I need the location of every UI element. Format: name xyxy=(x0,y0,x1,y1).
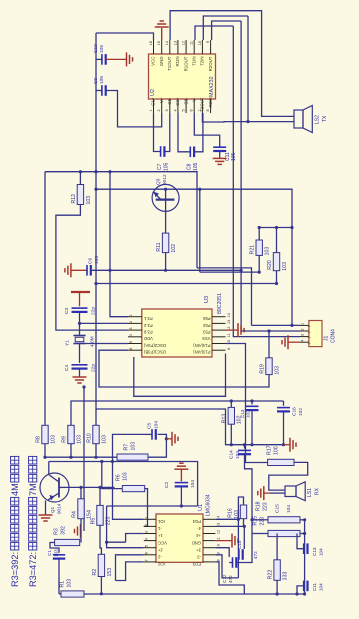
wire R3 left to C1 xyxy=(50,543,59,553)
capacitor C11 on V- to ground xyxy=(194,113,219,147)
svg-text:C6: C6 xyxy=(87,258,93,264)
svg-text:U2: U2 xyxy=(150,89,156,96)
U3 pin 3 xyxy=(128,329,142,331)
capacitor C9 to V+ xyxy=(96,90,102,92)
U1 pin 5 xyxy=(144,547,156,549)
U3 pin 11 xyxy=(212,336,226,338)
ground xyxy=(155,26,169,28)
wire bus x233 down to J1 pin3 xyxy=(233,26,300,337)
U3 pin 8 xyxy=(212,349,226,351)
wire R6 right to U1 pin2 xyxy=(144,489,148,527)
svg-text:472: 472 xyxy=(228,575,233,583)
wire bus x241 down to J1 pin2 region xyxy=(240,21,242,331)
svg-text:2: 2 xyxy=(129,321,133,323)
svg-text:104: 104 xyxy=(286,505,292,513)
svg-text:3: 3 xyxy=(165,109,169,111)
ground xyxy=(73,376,87,378)
svg-text:4.0M: 4.0M xyxy=(89,336,95,347)
svg-text:J1: J1 xyxy=(323,336,329,342)
svg-text:8: 8 xyxy=(206,109,210,111)
resistor R9 xyxy=(68,425,74,443)
op-amp U2 MAX232 IC body xyxy=(149,54,216,99)
svg-text:V+: V+ xyxy=(159,97,164,103)
svg-text:10: 10 xyxy=(227,340,231,344)
capacitor C12 xyxy=(232,557,234,568)
wire cross rail y272.1 xyxy=(200,271,259,273)
capacitor C13 bottom-right xyxy=(303,543,305,554)
svg-text:P13(AIN): P13(AIN) xyxy=(193,350,211,355)
svg-text:472: 472 xyxy=(253,551,258,559)
svg-text:+4: +4 xyxy=(196,533,201,538)
wire R2OUT pin9 riser xyxy=(212,21,242,40)
svg-text:5: 5 xyxy=(182,109,186,111)
wire C5 left xyxy=(113,434,145,461)
svg-text:C7: C7 xyxy=(157,163,163,170)
svg-text:13: 13 xyxy=(173,41,177,45)
wire C3 to Y1 xyxy=(79,312,81,336)
svg-text:P3.2: P3.2 xyxy=(143,323,152,328)
U2 pin 1 xyxy=(153,99,155,113)
svg-text:22p: 22p xyxy=(90,307,96,315)
wire U1 pin5 left loop xyxy=(107,506,144,548)
capacitor C14 xyxy=(244,445,246,449)
svg-text:R2: R2 xyxy=(92,569,98,576)
U1 pin 3 xyxy=(144,533,156,535)
svg-text:C13: C13 xyxy=(312,547,317,556)
wire R4 bottom to R3 xyxy=(80,519,82,543)
svg-text:11: 11 xyxy=(227,333,231,337)
svg-text:R3=472:: R3=472: xyxy=(28,552,38,587)
svg-text:333: 333 xyxy=(282,572,288,581)
svg-text:-2: -2 xyxy=(157,554,161,559)
svg-text:R3=392:: R3=392: xyxy=(10,552,20,587)
svg-text:9: 9 xyxy=(217,552,221,554)
ground xyxy=(174,468,188,470)
svg-text:4M: 4M xyxy=(10,483,20,496)
U2 pin 3 xyxy=(169,99,171,113)
J1 pin 4 xyxy=(300,341,309,343)
resistor R4 xyxy=(78,499,84,519)
svg-text:103: 103 xyxy=(235,451,241,459)
resistor R3 xyxy=(55,539,80,545)
capacitor C3 22p xyxy=(72,307,88,309)
svg-text:R17: R17 xyxy=(266,445,272,455)
wire T2IN pin10 riser to bus xyxy=(203,16,248,40)
wire Y1 to C4 xyxy=(79,344,81,364)
wire VCC pin16 to left rail xyxy=(96,33,154,40)
svg-text:T1IN: T1IN xyxy=(191,57,196,67)
svg-text:3: 3 xyxy=(145,531,149,533)
svg-text:15: 15 xyxy=(157,41,161,45)
wire VCC rail y171.7 xyxy=(45,172,197,268)
svg-text:9012: 9012 xyxy=(162,174,168,185)
svg-text:7M: 7M xyxy=(28,483,38,496)
svg-text:9: 9 xyxy=(206,41,210,43)
svg-text:R8: R8 xyxy=(35,436,41,443)
svg-text:C2+: C2+ xyxy=(175,97,180,106)
svg-text:R5: R5 xyxy=(90,518,96,525)
resistor R22 xyxy=(274,560,280,581)
svg-text:3+: 3+ xyxy=(196,547,201,552)
svg-text:105: 105 xyxy=(99,76,105,84)
wire Q1 collector rail xyxy=(49,462,198,507)
svg-text:104: 104 xyxy=(190,480,196,488)
svg-text:OSC2(P3A): OSC2(P3A) xyxy=(143,343,166,348)
svg-text:1: 1 xyxy=(129,314,133,316)
svg-text:R10: R10 xyxy=(86,433,92,443)
ground right of C5 xyxy=(166,438,172,440)
resistor R16 xyxy=(240,505,246,519)
svg-text:P3.9: P3.9 xyxy=(143,329,152,334)
svg-text:103: 103 xyxy=(50,435,56,444)
svg-text:5: 5 xyxy=(145,545,149,547)
wire U1 pin9 right xyxy=(215,555,238,578)
capacitor C15 xyxy=(238,549,240,560)
U1 pin 4 xyxy=(144,540,156,542)
J1 pin 3 xyxy=(300,336,309,338)
svg-text:103: 103 xyxy=(282,262,288,271)
wire top rail of R20 R21 xyxy=(259,227,292,229)
resistor R20 xyxy=(276,228,278,253)
wire Q3 base rail xyxy=(96,189,292,227)
U1 pin 8 xyxy=(203,561,215,563)
wire R11 bottom to rail xyxy=(165,253,167,271)
svg-text:Q3: Q3 xyxy=(155,178,161,185)
svg-text:13: 13 xyxy=(227,320,231,324)
svg-text:C8: C8 xyxy=(186,163,192,170)
wire T2OUT pin7 to TX lower terminal xyxy=(202,113,294,122)
svg-text:3: 3 xyxy=(301,334,305,336)
wire Q3 collector down xyxy=(165,200,167,234)
svg-text:103: 103 xyxy=(122,472,128,481)
svg-text:C4: C4 xyxy=(64,365,70,371)
transducer LS2 TX xyxy=(294,110,303,128)
svg-text:12: 12 xyxy=(182,41,186,45)
svg-text:R1OUT: R1OUT xyxy=(183,56,188,71)
resistor R21 xyxy=(256,240,262,255)
ground xyxy=(263,486,265,500)
resistor R12 xyxy=(77,185,83,205)
svg-text:103: 103 xyxy=(76,435,82,444)
U3 pin 5 xyxy=(128,343,142,345)
ground at U2 pin15 xyxy=(161,28,163,40)
wire R7 row xyxy=(45,456,117,458)
ground xyxy=(287,335,289,349)
wire rail Q y396.3 xyxy=(134,354,226,397)
svg-text:C12: C12 xyxy=(222,574,227,583)
svg-text:1+: 1+ xyxy=(157,533,162,538)
svg-text:IO2: IO2 xyxy=(157,562,164,567)
ground xyxy=(70,263,72,277)
wire T1OUT pin14 to TX upper terminal xyxy=(170,11,294,117)
ground at U1 pin11 GND xyxy=(215,540,232,542)
svg-text:VCC: VCC xyxy=(158,540,167,545)
wire R19 bottom rail P y387 xyxy=(99,350,269,387)
resistor R5 xyxy=(99,487,101,505)
capacitor C7 xyxy=(154,113,161,152)
svg-text:3: 3 xyxy=(129,328,133,330)
svg-text:LMC6034: LMC6034 xyxy=(205,494,211,516)
svg-text:104: 104 xyxy=(319,548,324,556)
svg-text:VSS: VSS xyxy=(202,336,211,341)
capacitor C11 bottom-right xyxy=(303,581,305,592)
svg-text:R16: R16 xyxy=(227,508,233,518)
svg-text:392: 392 xyxy=(60,526,66,535)
svg-text:1: 1 xyxy=(301,323,305,325)
U1 pin 13 xyxy=(203,525,215,527)
svg-text:—: — xyxy=(307,336,311,340)
svg-text:CON4: CON4 xyxy=(330,329,336,343)
capacitor C5 xyxy=(151,429,153,440)
U1 pin 7 xyxy=(144,561,156,563)
svg-text:100: 100 xyxy=(273,446,279,455)
svg-text:103: 103 xyxy=(274,366,280,375)
resistor R7 xyxy=(117,454,148,460)
svg-text:103: 103 xyxy=(66,579,72,588)
svg-text:1: 1 xyxy=(145,517,149,519)
svg-text:2: 2 xyxy=(145,524,149,526)
svg-text:R20: R20 xyxy=(267,260,273,270)
svg-text:C11: C11 xyxy=(312,582,317,591)
resistor R15 xyxy=(268,530,300,536)
svg-text:-1: -1 xyxy=(157,526,161,531)
svg-text:C15: C15 xyxy=(237,540,242,549)
U1 pin 6 xyxy=(144,554,156,556)
svg-text:7: 7 xyxy=(145,559,149,561)
resistor R22 xyxy=(276,534,278,560)
svg-text:R13: R13 xyxy=(222,414,228,424)
U3 right pin4 ground xyxy=(226,329,238,331)
wire cross rail y283.5 xyxy=(96,283,277,285)
capacitor C4 22p xyxy=(72,364,88,366)
wire U1 pin7 loop xyxy=(116,562,144,581)
U1 pin 14 xyxy=(203,518,215,520)
svg-text:VCC: VCC xyxy=(151,57,156,66)
svg-text:2: 2 xyxy=(301,328,305,330)
resistor R12 xyxy=(79,172,81,185)
svg-text:R22: R22 xyxy=(267,570,273,580)
U1 pin 10 xyxy=(203,547,215,549)
J1 pin 1 xyxy=(300,324,309,326)
wire right column x304.6 xyxy=(304,520,306,594)
svg-text:LS2: LS2 xyxy=(314,115,320,124)
wire J1 pin1 xyxy=(252,324,301,326)
svg-text:1: 1 xyxy=(149,109,153,111)
svg-text:4: 4 xyxy=(301,340,305,342)
wire T1IN pin11 riser xyxy=(195,26,233,40)
svg-text:R11: R11 xyxy=(156,242,162,251)
svg-text:102: 102 xyxy=(298,408,304,416)
svg-text:103: 103 xyxy=(54,549,59,557)
resistor R5 xyxy=(97,505,103,525)
U2 pin 15 xyxy=(161,40,163,54)
wire R17 right to RX loop xyxy=(269,462,308,490)
svg-text:8: 8 xyxy=(227,348,231,350)
U2 pin 6 xyxy=(193,99,195,113)
capacitor C16 xyxy=(283,401,285,406)
U1 pin 12 xyxy=(203,533,215,535)
wire Q1 collector up xyxy=(48,462,50,476)
capacitor C1 xyxy=(53,554,65,556)
U1 pin 1 xyxy=(144,518,156,520)
svg-text:U1: U1 xyxy=(198,504,204,511)
svg-text:22p: 22p xyxy=(90,364,96,372)
resistor R10 xyxy=(93,425,99,443)
svg-text:EO3: EO3 xyxy=(192,562,201,567)
svg-text:223: 223 xyxy=(259,517,265,526)
U3 pin 2 xyxy=(128,322,142,324)
wire drop to R21 rail xyxy=(199,189,201,272)
svg-text:223: 223 xyxy=(262,502,268,511)
wire rail to U3 pin1 xyxy=(110,172,128,317)
svg-text:89C2051: 89C2051 xyxy=(217,293,223,314)
ground xyxy=(80,524,82,538)
svg-text:T1OUT: T1OUT xyxy=(167,56,172,71)
svg-text:MAX232: MAX232 xyxy=(209,76,215,97)
svg-text:—: — xyxy=(307,342,311,346)
svg-text:104: 104 xyxy=(319,583,324,591)
annotation line 2 xyxy=(28,456,38,587)
resistor R19 xyxy=(268,331,270,358)
U3 pin 6 xyxy=(128,349,142,351)
U2 pin 16 xyxy=(153,40,155,54)
svg-text:103: 103 xyxy=(101,435,107,444)
wire R5 bottom to R2 xyxy=(100,525,101,554)
U2 pin 7 xyxy=(201,99,203,113)
wire bus x248 T2IN down to TX wire xyxy=(247,16,249,122)
svg-text:R3: R3 xyxy=(53,528,59,535)
svg-text:R1IN: R1IN xyxy=(175,57,180,67)
svg-text:P52: P52 xyxy=(202,323,210,328)
svg-text:OSC1(P3B): OSC1(P3B) xyxy=(143,350,166,355)
svg-text:4: 4 xyxy=(145,538,149,540)
svg-text:103: 103 xyxy=(86,196,92,205)
svg-text:RX: RX xyxy=(314,487,320,495)
wire Y1 to U3 pin5 xyxy=(86,343,128,345)
wire VCC bus x96 xyxy=(95,33,97,409)
resistor R13 xyxy=(228,407,234,424)
svg-text:4: 4 xyxy=(129,334,133,336)
svg-text:C14: C14 xyxy=(228,450,234,459)
svg-text:R12: R12 xyxy=(71,194,77,204)
wire to U3 pin2 XTAL xyxy=(80,322,129,324)
wire caps bottom rail to ground xyxy=(231,444,283,446)
wire U1 pin3 left xyxy=(126,534,144,543)
svg-text:GND: GND xyxy=(192,540,201,545)
connector J1 CON4 xyxy=(309,321,322,347)
wire U1 pin13 right xyxy=(215,526,244,549)
svg-text:16: 16 xyxy=(149,41,153,45)
U3 pin 12 xyxy=(212,329,226,331)
op-amp U1 LMC6034 body xyxy=(156,514,203,562)
svg-text:—: — xyxy=(307,331,311,335)
svg-text:V-: V- xyxy=(191,97,196,102)
resistor R6 xyxy=(122,486,144,492)
ground xyxy=(289,438,291,452)
U3 pin 13 xyxy=(212,322,226,324)
resistor R19 xyxy=(266,358,272,375)
wire bus x84 to ground xyxy=(83,387,85,531)
svg-text:R7: R7 xyxy=(123,444,129,451)
svg-text:-3: -3 xyxy=(197,554,201,559)
svg-text:LS1: LS1 xyxy=(307,488,313,497)
wire x112.5 down to U1 pin1 xyxy=(113,462,144,520)
svg-text:R2IN: R2IN xyxy=(208,98,213,108)
U2 pin 8 xyxy=(210,99,212,113)
resistor R18 xyxy=(268,517,300,523)
capacitor C13 xyxy=(251,401,253,405)
U2 pin 2 xyxy=(161,99,163,113)
svg-text:C13: C13 xyxy=(240,409,245,418)
svg-text:2+: 2+ xyxy=(157,547,162,552)
svg-text:105: 105 xyxy=(94,256,100,264)
svg-text:102: 102 xyxy=(171,244,177,253)
wire C4 to ground xyxy=(79,369,81,377)
svg-text:C2-: C2- xyxy=(183,97,188,105)
resistor R11 xyxy=(162,233,168,253)
svg-text:PO4: PO4 xyxy=(192,519,201,524)
svg-text:P53: P53 xyxy=(202,329,210,334)
svg-text:C1: C1 xyxy=(47,550,52,556)
svg-text:C1+: C1+ xyxy=(151,97,156,106)
svg-text:105: 105 xyxy=(163,162,169,171)
svg-text:4-: 4- xyxy=(197,526,201,531)
svg-text:C16: C16 xyxy=(291,407,297,416)
svg-text:R19: R19 xyxy=(259,364,265,374)
svg-text:C1-: C1- xyxy=(167,97,172,105)
svg-text:Q1: Q1 xyxy=(50,506,55,513)
svg-text:T2IN: T2IN xyxy=(200,57,205,67)
U3 pin 4 xyxy=(128,336,142,338)
ground xyxy=(39,514,53,516)
transducer LS1 RX xyxy=(285,486,296,497)
U3 pin 14 xyxy=(212,316,226,318)
svg-text:105: 105 xyxy=(231,152,237,161)
svg-text:R15: R15 xyxy=(252,516,258,526)
J1 pin 2 xyxy=(300,330,309,332)
svg-text:105: 105 xyxy=(193,162,199,171)
U1 pin 2 xyxy=(144,525,156,527)
svg-text:C5: C5 xyxy=(146,423,152,429)
svg-text:R21: R21 xyxy=(250,245,256,255)
resistor R13 xyxy=(230,401,232,407)
wire Q1 emitter to ground xyxy=(45,501,47,516)
svg-text:C11: C11 xyxy=(225,152,231,161)
svg-text:R18: R18 xyxy=(255,501,261,511)
svg-text:C15: C15 xyxy=(274,504,280,513)
svg-text:102: 102 xyxy=(246,410,251,418)
svg-text:C2: C2 xyxy=(164,482,170,488)
annotation line 1 xyxy=(10,456,20,587)
svg-text:104: 104 xyxy=(153,421,159,429)
resistor R4 xyxy=(80,487,82,498)
svg-text:R4: R4 xyxy=(71,511,77,518)
svg-text:—: — xyxy=(307,325,311,329)
wire U1 pin6 left xyxy=(116,555,144,581)
crystal Y1 4.0M xyxy=(73,335,85,337)
svg-text:154: 154 xyxy=(86,510,92,519)
U1 pin 9 xyxy=(203,554,215,556)
resistor R21 xyxy=(258,228,260,241)
ground xyxy=(171,432,173,446)
wire cross rail y270.3 xyxy=(110,269,241,271)
svg-text:12: 12 xyxy=(217,530,221,534)
resistor R20 xyxy=(273,253,279,271)
wire R10 top rail y409 xyxy=(96,409,231,445)
svg-text:C3: C3 xyxy=(64,308,70,314)
svg-text:R2OUT: R2OUT xyxy=(208,56,213,71)
svg-text:GND: GND xyxy=(159,57,164,67)
